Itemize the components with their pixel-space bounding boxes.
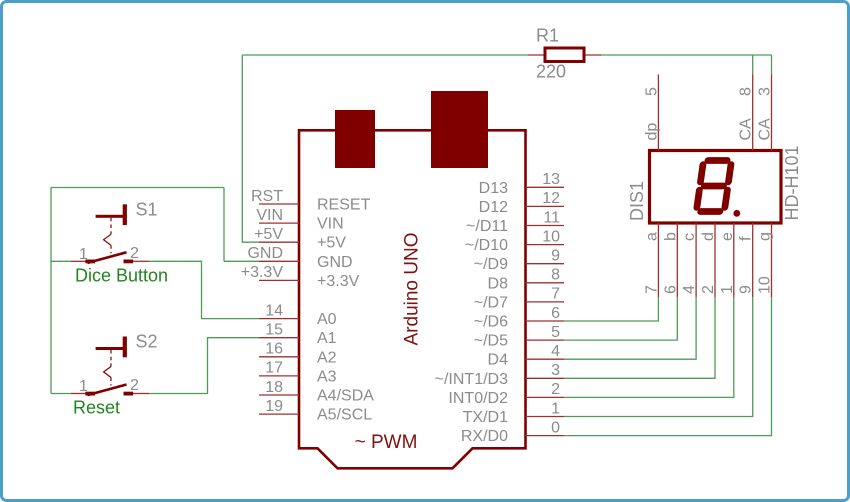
svg-text:7: 7 — [551, 286, 560, 303]
svg-text:6: 6 — [551, 305, 560, 322]
display bottom pin 9 (segment f) — [738, 223, 755, 297]
arduino right pin 2 (INT0/D2) — [448, 381, 564, 407]
svg-text:11: 11 — [543, 209, 560, 226]
svg-text:4: 4 — [681, 285, 698, 294]
display bottom pin 6 (segment b) — [662, 223, 679, 297]
wire: +5V net vertical riser from top run down to +5V pin — [242, 55, 259, 242]
arduino right pin 4 (D4) — [488, 343, 564, 369]
wire: S1 pin 2 to Arduino A0 — [149, 261, 259, 318]
arduino left pin 16 (A2) — [259, 341, 337, 367]
svg-text:~ PWM: ~ PWM — [355, 432, 418, 453]
svg-text:INT0/D2: INT0/D2 — [448, 390, 508, 407]
svg-text:CA: CA — [738, 118, 755, 141]
svg-text:5: 5 — [551, 324, 560, 341]
svg-text:10: 10 — [757, 276, 774, 294]
svg-text:HD-H101: HD-H101 — [782, 145, 802, 220]
wire: net N$1 from R1 right lead to common-anode column — [600, 54, 772, 56]
wire: Arduino D2 to display segment e — [564, 297, 734, 397]
svg-text:19: 19 — [265, 398, 283, 415]
svg-text:3: 3 — [757, 87, 774, 96]
arduino USB connector block — [335, 110, 375, 168]
arduino right pin 12 (D12) — [479, 190, 564, 216]
svg-text:~/D10: ~/D10 — [465, 237, 508, 254]
svg-text:D8: D8 — [488, 275, 509, 292]
svg-text:R1: R1 — [536, 26, 559, 46]
svg-text:7: 7 — [643, 285, 660, 294]
resistor R1 — [528, 48, 601, 62]
arduino right pin 0 (RX/D0) — [461, 419, 564, 445]
wire: GND stub to S2 pin 1 — [51, 393, 71, 395]
wire: Arduino D5 to display segment b — [564, 297, 677, 340]
svg-text:~/D5: ~/D5 — [474, 333, 508, 350]
wire: GND loop top horizontal above S1 — [51, 187, 224, 189]
display bottom pin 10 (segment g) — [757, 223, 774, 297]
svg-text:+3.3V: +3.3V — [241, 264, 284, 281]
svg-text:+5V: +5V — [254, 226, 283, 243]
svg-text:Arduino UNO: Arduino UNO — [402, 233, 423, 346]
wire: GND stub to S1 pin 1 — [51, 260, 71, 262]
svg-text:b: b — [662, 232, 679, 241]
svg-text:A3: A3 — [317, 368, 337, 385]
arduino left pin 19 (A5/SCL) — [259, 398, 372, 424]
arduino right pin 13 (D13) — [479, 171, 564, 197]
svg-text:~/D7: ~/D7 — [474, 294, 508, 311]
wire: GND loop left vertical joining S1 pin1 and S2 pin1 — [50, 188, 52, 394]
svg-text:dp: dp — [643, 123, 660, 141]
svg-text:e: e — [719, 232, 736, 241]
svg-text:VIN: VIN — [256, 207, 283, 224]
wire: GND horizontal into Arduino GND pin — [224, 260, 259, 262]
arduino right pin 5 (~/D5) — [474, 324, 564, 350]
arduino right pin 7 (~/D7) — [474, 286, 564, 312]
decimal point dot — [733, 210, 740, 217]
svg-text:A4/SDA: A4/SDA — [317, 388, 374, 405]
display bottom pin 7 (segment a) — [643, 223, 660, 297]
svg-text:f: f — [738, 236, 755, 241]
arduino left pin +3.3V (+3.3V) — [241, 264, 360, 290]
svg-text:6: 6 — [662, 285, 679, 294]
svg-text:1: 1 — [79, 378, 88, 395]
arduino right pin 9 (~/D9) — [474, 248, 564, 274]
arduino right pin 1 (TX/D1) — [463, 400, 564, 426]
arduino left pin RST (RESET) — [251, 188, 371, 214]
svg-text:220: 220 — [536, 62, 566, 82]
arduino UNO module outline with bottom notch — [299, 130, 526, 468]
arduino right pin 3 (~/INT1/D3) — [435, 362, 564, 388]
svg-text:2: 2 — [700, 285, 717, 294]
svg-text:CA: CA — [757, 118, 774, 141]
svg-text:D12: D12 — [479, 199, 508, 216]
svg-text:13: 13 — [542, 171, 560, 188]
svg-text:2: 2 — [130, 245, 139, 262]
svg-text:~/INT1/D3: ~/INT1/D3 — [435, 371, 508, 388]
svg-text:GND: GND — [317, 254, 353, 271]
svg-text:0: 0 — [551, 419, 560, 436]
arduino right pin 10 (~/D10) — [465, 228, 564, 254]
svg-text:10: 10 — [542, 228, 560, 245]
svg-text:5: 5 — [643, 87, 660, 96]
svg-text:RX/D0: RX/D0 — [461, 428, 508, 445]
svg-text:Reset: Reset — [73, 398, 120, 418]
wire: riser down to display CA pin 8 — [752, 55, 754, 75]
svg-text:D13: D13 — [479, 180, 508, 197]
svg-text:+3.3V: +3.3V — [317, 273, 360, 290]
svg-text:9: 9 — [551, 248, 560, 265]
wire: Arduino D1 to display segment f — [564, 297, 753, 417]
svg-text:8: 8 — [738, 87, 755, 96]
wire: Arduino D3 to display segment d — [564, 297, 715, 378]
svg-text:16: 16 — [265, 341, 283, 358]
display bottom pin 1 (segment e) — [719, 223, 736, 297]
wire: Arduino D6 to display segment a — [564, 297, 658, 321]
svg-text:3: 3 — [551, 362, 560, 379]
svg-text:2: 2 — [551, 381, 560, 398]
svg-text:~/D11: ~/D11 — [466, 218, 508, 235]
svg-text:1: 1 — [719, 285, 736, 294]
svg-text:14: 14 — [265, 302, 283, 319]
svg-text:g: g — [757, 232, 774, 241]
svg-text:12: 12 — [542, 190, 560, 207]
wire: riser down to display CA pin 3 — [771, 55, 773, 75]
arduino right pin 11 (~/D11) — [466, 209, 564, 235]
svg-text:1: 1 — [551, 400, 560, 417]
7-segment display DIS1 body — [650, 151, 782, 224]
svg-text:A0: A0 — [317, 311, 337, 328]
arduino left pin 15 (A1) — [259, 322, 337, 348]
svg-text:RESET: RESET — [317, 197, 371, 214]
svg-text:S2: S2 — [136, 332, 158, 352]
arduino power jack block — [431, 91, 488, 168]
svg-text:+5V: +5V — [317, 235, 346, 252]
display bottom pin 2 (segment d) — [700, 223, 717, 297]
display bottom pin 4 (segment c) — [681, 223, 698, 297]
svg-text:d: d — [700, 232, 717, 241]
wire: +5V net top horizontal run to R1 left lead — [242, 54, 528, 56]
svg-text:9: 9 — [738, 285, 755, 294]
arduino right pin 8 (D8) — [488, 267, 564, 293]
wire: Arduino D0 to display segment g — [564, 297, 772, 436]
display top pin 5 (dp) — [643, 75, 660, 151]
svg-text:17: 17 — [265, 360, 283, 377]
wire: S2 pin 2 to Arduino A1 — [149, 338, 259, 394]
svg-text:DIS1: DIS1 — [627, 181, 647, 221]
svg-text:15: 15 — [265, 322, 283, 339]
svg-text:Dice Button: Dice Button — [75, 265, 168, 285]
svg-text:A5/SCL: A5/SCL — [317, 407, 372, 424]
svg-text:8: 8 — [551, 267, 560, 284]
seven-segment digit 8 — [696, 161, 731, 212]
svg-text:S1: S1 — [136, 199, 158, 219]
svg-text:a: a — [643, 232, 660, 241]
arduino right pin 6 (~/D6) — [474, 305, 564, 331]
svg-text:2: 2 — [130, 377, 139, 394]
svg-text:GND: GND — [247, 245, 283, 262]
arduino left pin 17 (A3) — [259, 360, 337, 386]
svg-text:VIN: VIN — [317, 216, 344, 233]
wire: GND loop right vertical down to GND pin row — [223, 188, 225, 262]
svg-text:18: 18 — [265, 379, 283, 396]
pushbutton S2 — [71, 337, 149, 396]
svg-text:RST: RST — [251, 188, 283, 205]
display top pin 3 (CA) — [757, 75, 774, 151]
svg-text:A2: A2 — [317, 349, 337, 366]
svg-text:~/D6: ~/D6 — [474, 314, 508, 331]
svg-text:~/D9: ~/D9 — [474, 256, 508, 273]
arduino left pin VIN (VIN) — [256, 207, 343, 233]
svg-text:1: 1 — [79, 246, 88, 263]
arduino left pin 18 (A4/SDA) — [259, 379, 374, 405]
display top pin 8 (CA) — [738, 75, 755, 151]
svg-text:A1: A1 — [317, 330, 337, 347]
arduino left pin +5V (+5V) — [254, 226, 346, 252]
svg-text:c: c — [681, 233, 698, 241]
svg-text:D4: D4 — [488, 352, 509, 369]
arduino left pin GND (GND) — [247, 245, 352, 271]
svg-text:TX/D1: TX/D1 — [463, 409, 508, 426]
arduino left pin 14 (A0) — [259, 302, 337, 328]
pushbutton S1 — [71, 204, 149, 263]
wire: Arduino D4 to display segment c — [564, 297, 696, 359]
svg-text:4: 4 — [551, 343, 560, 360]
